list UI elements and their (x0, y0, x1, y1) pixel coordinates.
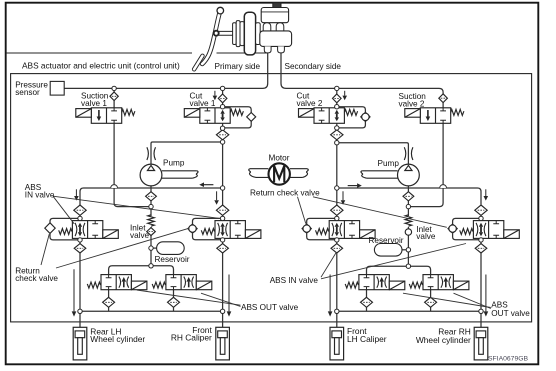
wire wheel cylinder 1 stub (79, 311, 81, 327)
leader return check valve primary to A (41, 234, 49, 265)
front LH caliper (330, 327, 344, 360)
IN valve C return check valve (302, 224, 312, 234)
node wheel cylinder 2 (220, 309, 224, 313)
leader ABS IN valve secondary to C (321, 253, 336, 277)
node IN valve C top (335, 216, 339, 220)
filter above IN valve A (74, 205, 86, 215)
leader return check valve secondary to D (313, 197, 447, 228)
suction valve 1 (solenoid valve) (91, 108, 121, 124)
svg-text:IN valve: IN valve (25, 190, 55, 199)
node wheel cylinder 1 (78, 309, 82, 313)
filter below OUT valve B (168, 297, 180, 307)
leader ABS OUT valve primary to B (201, 293, 241, 306)
node IN valve D top (479, 216, 483, 220)
filter below OUT valve C (361, 297, 373, 307)
master cylinder fluid reservoir (261, 8, 288, 23)
wire wheel rail primary (80, 310, 223, 312)
svg-text:ABS IN valve: ABS IN valve (270, 276, 319, 285)
rear LH wheel cylinder (73, 327, 87, 360)
wire wheel cylinder 2 stub (222, 311, 224, 327)
wire suction valve 1 drop (113, 91, 115, 108)
svg-text:check valve: check valve (15, 274, 58, 283)
leader ABS IN valve secondary to D (321, 244, 466, 279)
node below pump 1 (149, 204, 153, 208)
pump 2 shaft ribbon (362, 171, 397, 178)
master cylinder primary port (264, 46, 271, 53)
svg-text:Pump: Pump (163, 159, 185, 168)
svg-text:Wheel cylinder: Wheel cylinder (90, 334, 145, 344)
rear RH wheel cylinder (474, 327, 488, 360)
svg-text:Pump: Pump (378, 159, 400, 168)
node pump 2 feed junction (335, 141, 339, 145)
wire OUT valve C bottom (366, 290, 368, 312)
filter above IN valve C (331, 205, 343, 215)
wire reservoir rail 1 (109, 266, 174, 275)
wire pump 2 output (407, 186, 409, 216)
wire reservoir 1 stub (151, 247, 157, 249)
node IN valve B top (220, 216, 224, 220)
wire IN valve C column (336, 215, 338, 311)
ABS OUT valve D rear RH (423, 275, 453, 290)
cut valve 1 (solenoid valve) (200, 108, 230, 124)
svg-text:Primary side: Primary side (215, 62, 261, 71)
svg-text:Wheel cylinder: Wheel cylinder (416, 335, 471, 345)
leader ABS IN valve primary to valve A (53, 196, 74, 224)
flow arrow to wheel cylinder 2 (228, 275, 230, 312)
leader return check valve secondary to C (298, 197, 306, 224)
pump 2 (398, 164, 420, 186)
leader ABS OUT valve primary to A (137, 290, 241, 305)
pump 2 inlet arcs (404, 147, 406, 160)
svg-text:valve: valve (416, 232, 436, 241)
motor left shaft ribbon (250, 169, 269, 178)
reservoir 2 (secondary accumulator) (374, 244, 402, 257)
damper spring inlet column 2 (405, 215, 412, 226)
filter below OUT valve D (425, 297, 437, 307)
booster drum (244, 12, 255, 55)
cut valve 2 (solenoid valve) (314, 108, 344, 124)
front RH caliper (216, 327, 230, 360)
wire wheel rail secondary (337, 310, 481, 312)
leader ABS IN valve primary to valve B (53, 196, 221, 218)
flow arrow rail 2 rightward (348, 185, 358, 187)
pedal pivot bolt (214, 31, 219, 36)
brake pedal pad (194, 56, 202, 70)
wire wheel cylinder 3 stub (336, 311, 338, 327)
booster plate 1 (233, 23, 237, 45)
IN valve D return check valve (448, 224, 458, 234)
pump 1 shaft ribbon (162, 171, 197, 178)
node reservoir rail 2 (406, 264, 410, 268)
filter above IN valve D (475, 205, 487, 215)
node cut valve 1 top (220, 105, 224, 109)
flow arrow to wheel cylinder 3 (329, 275, 331, 312)
node cut valve 1 tap (220, 86, 224, 90)
svg-text:sensor: sensor (15, 88, 40, 97)
filter below IN valve B (217, 244, 229, 253)
wire pump 1 output (150, 186, 152, 216)
node below pump 2 (406, 204, 410, 208)
pedal top pivot circle (217, 7, 224, 14)
ABS OUT valve C front LH (359, 275, 389, 290)
svg-text:ABS actuator and electric unit: ABS actuator and electric unit (control … (22, 60, 180, 70)
node IN valve B bottom (220, 238, 224, 242)
node IN valve A bottom (78, 238, 82, 242)
master cylinder secondary port (278, 46, 285, 53)
cut valve 1 bypass loop (223, 107, 252, 128)
wire suction valve 2 down line (408, 123, 443, 206)
line hop at suction 1 crossing (111, 185, 118, 188)
svg-text:Reservoir: Reservoir (369, 236, 404, 245)
filter below OUT valve A (103, 297, 115, 307)
svg-text:valve 1: valve 1 (81, 99, 107, 108)
leader return check valve primary to B (56, 228, 189, 268)
svg-text:SFIA0679GB: SFIA0679GB (488, 355, 529, 362)
svg-text:valve 1: valve 1 (190, 99, 216, 108)
ABS IN valve C / inlet valve front LH (329, 221, 359, 239)
pump 1 inlet arcs (147, 147, 149, 160)
svg-text:Return check valve: Return check valve (250, 188, 320, 197)
IN valve A return check valve (45, 223, 55, 234)
damper on inlet column 1 (147, 228, 156, 236)
node rail 2 cut column (335, 186, 339, 190)
wire secondary mid rail (337, 188, 481, 205)
reservoir-to-cylinder hump 1 (263, 23, 271, 31)
svg-text:RH Caliper: RH Caliper (171, 333, 212, 343)
IN valve C bypass loop (307, 218, 337, 239)
wire suction valve 1 down line (114, 123, 151, 206)
wire reservoir rail 2 (367, 266, 431, 274)
booster plate 3 (240, 22, 244, 46)
svg-text:Motor: Motor (269, 154, 290, 163)
node IN valve C bottom (335, 238, 339, 242)
filter at suction valve 1 inlet (110, 92, 118, 101)
ABS OUT valve A rear LH (101, 275, 131, 290)
filter at cut valve 1 inlet (218, 94, 227, 103)
node wheel cylinder 4 (479, 309, 483, 313)
wire cut valve 2 input drop (336, 91, 338, 108)
wire IN valve D column (480, 215, 482, 311)
wire OUT valve D bottom (430, 290, 432, 312)
svg-text:Reservoir: Reservoir (155, 255, 190, 264)
IN valve D bypass loop (453, 218, 481, 239)
line hop at suction 2 crossing (440, 185, 447, 188)
svg-text:OUT valve: OUT valve (491, 309, 530, 318)
svg-text:valve 2: valve 2 (399, 99, 425, 108)
wire inlet column 2 lower (407, 227, 409, 266)
suction valve 2 (solenoid valve) (420, 108, 450, 124)
wire cut valve 2 to pump feed node (336, 123, 338, 142)
pressure sensor (50, 81, 64, 95)
flow arrow into cut valve 1 (214, 91, 216, 96)
ABS actuator unit box (11, 74, 532, 322)
IN valve A bypass loop (50, 218, 80, 240)
leader ABS OUT valve secondary to D (454, 293, 491, 308)
damper below cut valve 2 (331, 130, 343, 140)
flow arrow rail 1 leftward (204, 184, 214, 186)
motor M1 (269, 163, 290, 184)
wire OUT valve B bottom (173, 290, 175, 312)
master cylinder body (260, 31, 292, 47)
filter at cut valve 2 inlet (333, 94, 342, 103)
flow arrow down cut column 2 (342, 191, 344, 200)
node suction valve 1 tap (112, 86, 116, 90)
filter below pump 2 (403, 192, 414, 201)
reservoir 1 (primary accumulator) (157, 242, 185, 255)
wire inlet column 1 lower (150, 227, 152, 266)
wire secondary rail from master cylinder to suction valve 2 (281, 53, 443, 94)
svg-text:LH Caliper: LH Caliper (347, 334, 387, 344)
wire IN valve B column (222, 215, 224, 311)
header divider line (6, 52, 268, 54)
wire primary rail from pressure sensor to master cylinder (64, 53, 268, 89)
flow arrow down cut column 1 (216, 191, 218, 200)
damper below cut valve 1 (216, 130, 228, 140)
node cut valve 1 bottom (220, 126, 224, 130)
filter below IN valve A (74, 244, 86, 253)
IN valve B bypass loop (193, 218, 223, 239)
flow arrow to wheel cylinder 4 (485, 275, 487, 312)
damper spring inlet column 1 (148, 215, 155, 226)
node cut valve 2 bottom (335, 126, 339, 130)
motor right shaft ribbon (290, 169, 307, 178)
booster plate 4 (256, 23, 261, 45)
IN valve B return check valve (188, 224, 198, 234)
ABS IN valve A / inlet valve rear LH (72, 221, 102, 239)
pedal pushrod (218, 31, 234, 35)
wire cut valve 2 column rail to IN valve (336, 188, 338, 205)
wire cut valve 2 column down to rail (336, 143, 338, 188)
flow arrow into cut valve 2 (344, 91, 346, 96)
cut valve 1 bypass check valve (247, 113, 256, 122)
cut valve 2 bypass check valve (361, 112, 371, 122)
node wheel cylinder 3 (335, 309, 339, 313)
filter above IN valve B (216, 205, 228, 215)
node cut valve 2 tap (335, 86, 339, 90)
wire cut valve 1 column rail to IN valve (222, 188, 224, 205)
reservoir-to-cylinder hump 2 (276, 23, 284, 31)
filter below IN valve D (475, 244, 487, 253)
wire suction valve 2 input (442, 103, 444, 108)
node pump 1 feed junction (220, 140, 224, 144)
node reservoir rail 1 (149, 264, 153, 268)
filter below pump 1 (146, 192, 157, 201)
flow arrow down at IN valve A corner (75, 189, 77, 196)
svg-text:ABS OUT valve: ABS OUT valve (241, 303, 299, 312)
wire IN valve A column (79, 215, 81, 311)
wire cut valve 1 input drop (222, 91, 224, 108)
master cylinder reservoir cap (273, 3, 281, 8)
booster plate 2 (236, 21, 240, 47)
node rail 1 cut column (220, 186, 224, 190)
node cut valve 2 top (335, 105, 339, 109)
wire cut valve 1 to pump feed node (222, 123, 224, 142)
svg-text:valve 2: valve 2 (297, 99, 323, 108)
wire OUT valve A bottom (108, 290, 110, 312)
filter at suction valve 2 inlet (439, 94, 448, 103)
wire pump 2 feed (337, 143, 409, 165)
flow arrow to wheel cylinder 1 (73, 269, 75, 311)
node reservoir 2 junction (406, 248, 410, 252)
check circle on inlet column 2 (405, 229, 411, 235)
svg-text:valve: valve (130, 231, 150, 240)
wire reservoir 2 stub (402, 249, 408, 251)
wire wheel cylinder 4 stub (480, 311, 482, 327)
leader ABS OUT valve secondary to C (403, 293, 491, 307)
wire pump 1 feed (151, 142, 223, 164)
cut valve 2 bypass loop (337, 107, 366, 128)
filter below IN valve C (331, 244, 343, 253)
wire cut valve 1 column down to rail (222, 142, 224, 188)
brake pedal arm (202, 11, 220, 64)
node reservoir 1 junction (149, 246, 153, 250)
node IN valve D bottom (479, 238, 483, 242)
ABS IN valve D / inlet valve rear RH (473, 221, 503, 239)
flow arrow down at IN valve D corner (485, 189, 487, 196)
ABS IN valve B / inlet valve front RH (215, 221, 245, 239)
wire primary mid rail (80, 188, 223, 206)
pump 1 (140, 164, 162, 186)
node IN valve A top (78, 216, 82, 220)
ABS OUT valve B front RH (166, 275, 196, 290)
svg-text:Secondary side: Secondary side (285, 62, 342, 71)
